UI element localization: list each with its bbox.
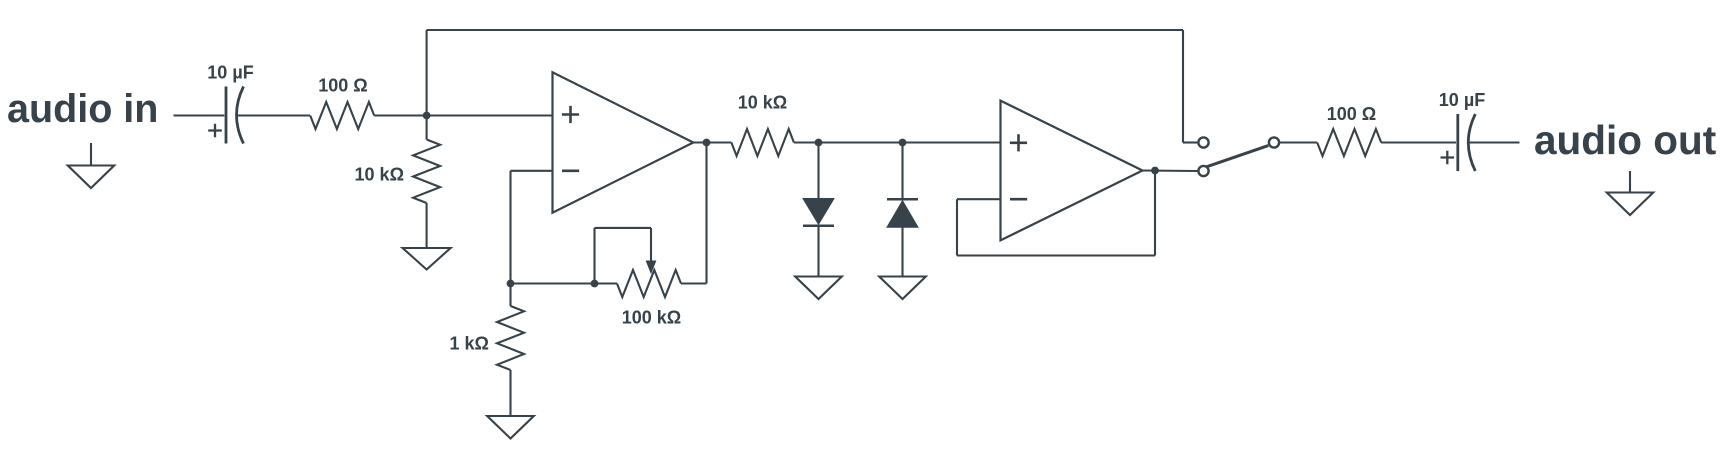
wire U1 -in down to node B — [509, 171, 511, 284]
resistor R5 — [1317, 129, 1381, 156]
wire R5 to C2 — [1381, 141, 1456, 143]
diode D2 cathode bar — [887, 198, 918, 201]
svg-text:10 µF: 10 µF — [207, 63, 253, 83]
node E junction dot — [815, 139, 823, 147]
svg-text:10 kΩ: 10 kΩ — [738, 93, 787, 113]
svg-text:100 kΩ: 100 kΩ — [622, 308, 681, 328]
wire node A up — [426, 30, 428, 116]
wiper arrowhead — [646, 261, 657, 275]
wire C1 to R1 — [238, 114, 311, 116]
wire U2 feedback down — [956, 199, 958, 255]
label R5 value 100 Ω — [1327, 104, 1376, 124]
wire bypass top horizontal — [427, 29, 1183, 31]
wire D2 to ground — [901, 227, 903, 276]
op-amp U2 - marker — [1010, 198, 1027, 201]
op-amp U1 + marker — [562, 106, 579, 123]
op-amp U2 + marker — [1010, 134, 1027, 151]
wire U2 feedback up to output — [1154, 171, 1156, 256]
switch SW1 bottom throw contact — [1198, 166, 1208, 176]
wiper arrow shaft — [650, 228, 652, 263]
resistor R4 — [497, 306, 524, 370]
node A junction dot — [423, 112, 431, 120]
svg-text:100 Ω: 100 Ω — [1327, 104, 1376, 124]
label "audio in" — [7, 87, 158, 131]
diode D1 cathode bar — [803, 225, 834, 228]
resistor R1 — [310, 102, 374, 129]
wire audio-in to C1 — [174, 114, 225, 116]
diode D1 triangle — [803, 199, 834, 225]
label C2 value 10 µF — [1439, 90, 1485, 110]
wire U2 feedback bottom — [957, 254, 1155, 256]
wire node A to R2 — [426, 116, 428, 140]
capacitor C2 — [1441, 114, 1476, 171]
ground (R4) — [487, 416, 534, 439]
wire pole to R5 — [1280, 141, 1318, 143]
ground (D2) — [879, 277, 926, 300]
svg-text:audio in: audio in — [7, 87, 158, 131]
wire R3 to U2 +in — [794, 141, 1001, 143]
svg-text:1 kΩ: 1 kΩ — [450, 334, 489, 354]
wire corner up to U1 output node — [705, 143, 707, 284]
wire R2 to ground — [426, 203, 428, 248]
ground (audio in) — [68, 143, 114, 188]
node F junction dot — [899, 139, 907, 147]
op-amp U1 - marker — [562, 170, 579, 173]
wire U2 -in stub — [957, 198, 1001, 200]
label R2 value 10 kΩ — [355, 165, 404, 185]
svg-text:10 kΩ: 10 kΩ — [355, 165, 404, 185]
wire U2 out to switch — [1143, 169, 1198, 172]
node D junction dot (U1 output) — [703, 139, 711, 147]
svg-text:100 Ω: 100 Ω — [318, 76, 367, 96]
wire wiper top — [595, 227, 652, 229]
label RV1 value 100 kΩ — [622, 308, 681, 328]
label R4 value 1 kΩ — [450, 334, 489, 354]
potentiometer RV1 track — [617, 270, 681, 297]
ground (audio out) — [1607, 171, 1653, 215]
wire R1 to node A / op-amp U1 +in — [374, 114, 552, 116]
wire node B to R4 — [509, 284, 511, 307]
wire C2 to audio-out — [1469, 141, 1519, 143]
wire U1 -in left — [511, 170, 553, 172]
label C1 value 10 µF — [207, 63, 253, 83]
op-amp U2 — [1001, 101, 1143, 241]
label "audio out" — [1534, 117, 1716, 163]
wire stub to switch top throw — [1183, 141, 1197, 143]
wire node F to D2 — [901, 143, 903, 200]
op-amp U1 — [553, 72, 694, 212]
diode D2 triangle — [887, 201, 918, 228]
switch SW1 pole contact — [1269, 137, 1279, 147]
node G junction dot (U2 output) — [1151, 167, 1159, 175]
node B junction dot — [507, 280, 515, 288]
ground (R2) — [403, 248, 451, 270]
label R1 value 100 Ω — [318, 76, 367, 96]
wire D1 to ground — [817, 226, 819, 277]
svg-text:audio out: audio out — [1534, 117, 1716, 163]
resistor R3 — [731, 129, 794, 156]
wire RV1 to corner — [681, 282, 707, 284]
node C junction dot — [591, 280, 599, 288]
label R3 value 10 kΩ — [738, 93, 787, 113]
svg-text:10 µF: 10 µF — [1439, 90, 1485, 110]
wire node E to D1 — [817, 143, 819, 199]
wire U1 out to R3 — [693, 141, 731, 143]
wire node B to node C — [511, 282, 618, 284]
switch SW1 arm — [1207, 146, 1269, 167]
wire wiper riser — [593, 228, 595, 284]
wire R4 to ground — [509, 370, 511, 416]
resistor R2 — [413, 140, 440, 204]
ground (D1) — [795, 277, 842, 300]
capacitor C1 — [208, 87, 243, 144]
wire bypass down to switch — [1182, 30, 1184, 143]
switch SW1 top throw contact — [1198, 137, 1208, 147]
